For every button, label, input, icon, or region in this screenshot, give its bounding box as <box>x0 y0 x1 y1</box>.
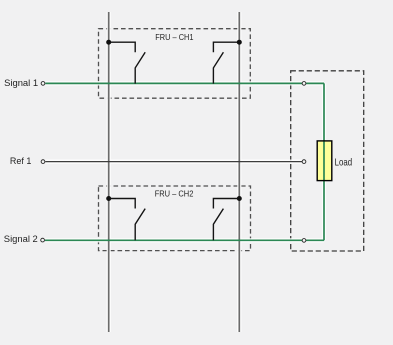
svg-text:Signal 2: Signal 2 <box>4 234 38 244</box>
svg-text:Load: Load <box>335 157 353 169</box>
svg-text:Signal 1: Signal 1 <box>4 78 38 88</box>
svg-text:FRU – CH1: FRU – CH1 <box>155 32 193 42</box>
svg-text:FRU – CH2: FRU – CH2 <box>155 189 194 199</box>
svg-text:Ref 1: Ref 1 <box>10 156 32 166</box>
